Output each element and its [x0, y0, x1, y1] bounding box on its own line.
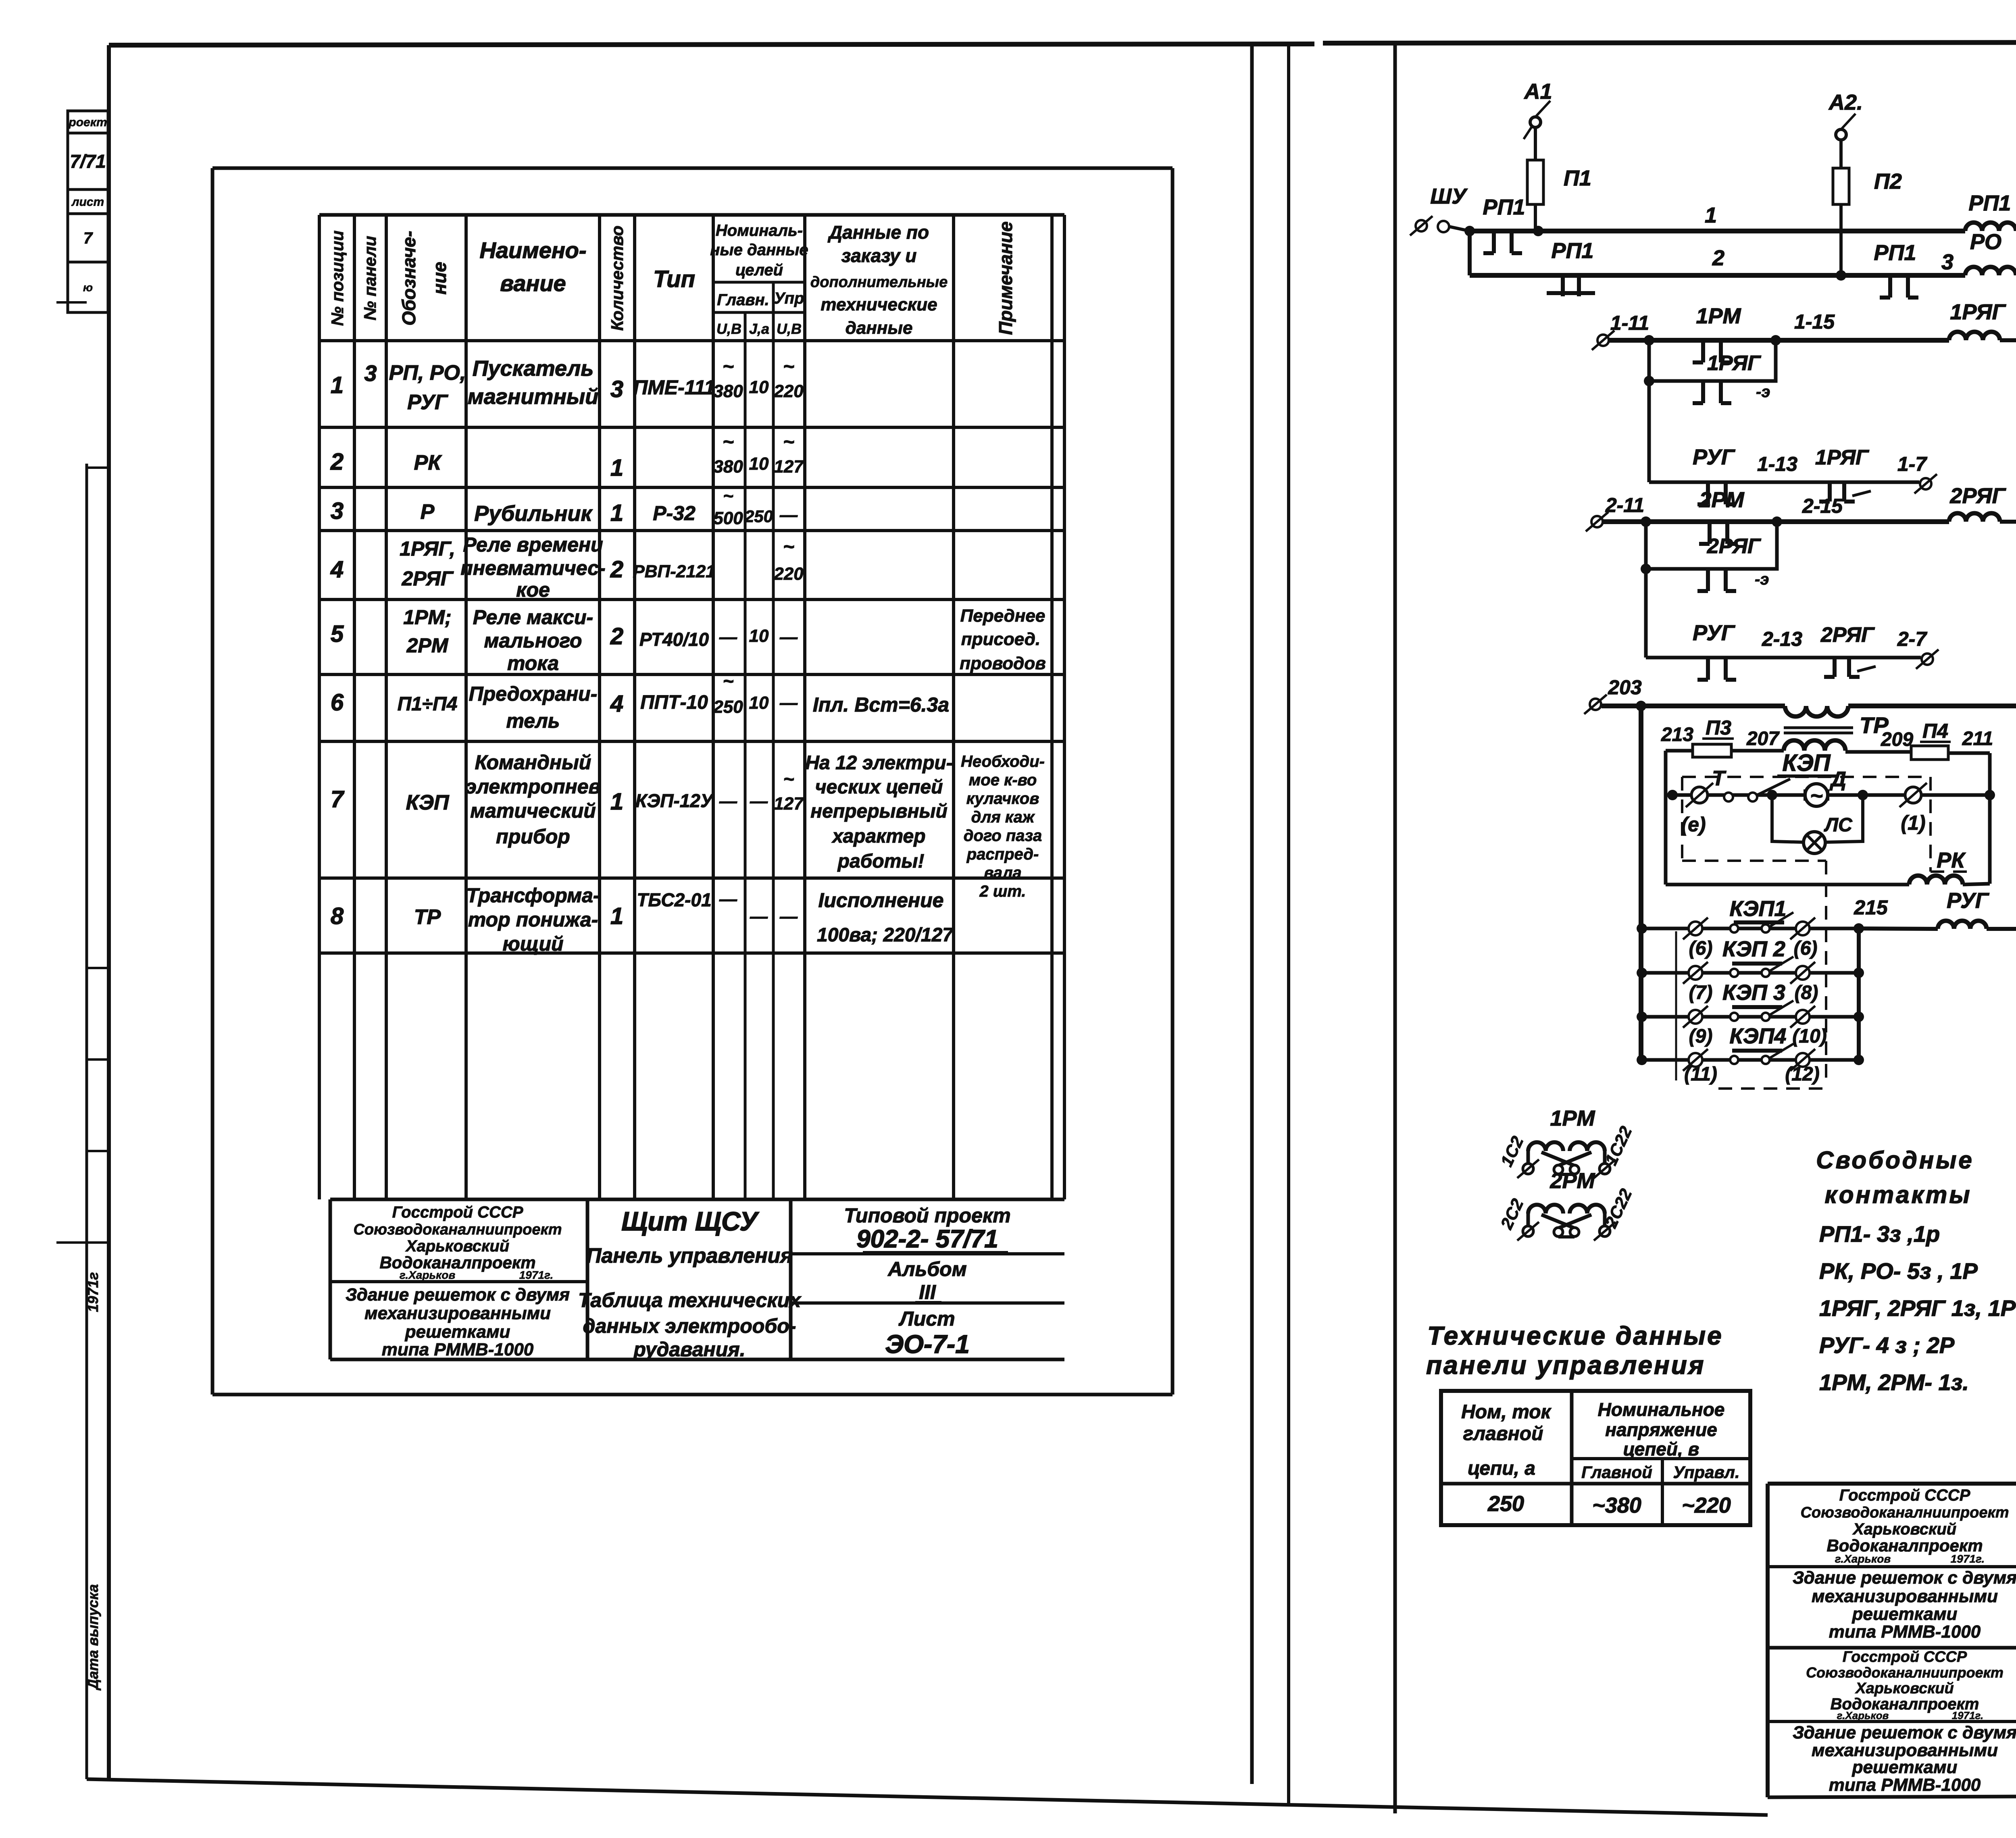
svg-text:Тип: Тип: [653, 266, 695, 292]
svg-text:типа РММВ-1000: типа РММВ-1000: [382, 1340, 534, 1359]
svg-text:РУГ: РУГ: [1693, 621, 1736, 645]
svg-text:1РМ: 1РМ: [1550, 1106, 1595, 1130]
svg-text:220: 220: [773, 564, 804, 584]
svg-text:РТ40/10: РТ40/10: [639, 629, 709, 650]
svg-text:г.Харьков: г.Харьков: [400, 1269, 456, 1281]
svg-text:Количество: Количество: [608, 226, 627, 331]
svg-text:Р-32: Р-32: [653, 502, 696, 525]
svg-text:Предохрани-: Предохрани-: [469, 683, 598, 705]
svg-text:1РЯГ: 1РЯГ: [1950, 300, 2006, 324]
svg-text:U,B: U,B: [777, 321, 802, 337]
svg-text:ние: ние: [429, 262, 450, 294]
svg-text:ческих цепей: ческих цепей: [815, 776, 943, 798]
svg-text:вала: вала: [984, 864, 1022, 882]
svg-text:3: 3: [331, 498, 344, 524]
svg-text:дополнительные: дополнительные: [810, 274, 948, 291]
svg-text:2-7: 2-7: [1897, 628, 1927, 650]
svg-text:1971г.: 1971г.: [1951, 1553, 1985, 1565]
svg-text:вание: вание: [500, 271, 566, 296]
svg-text:2РМ: 2РМ: [1549, 1169, 1595, 1193]
svg-text:220: 220: [773, 381, 804, 401]
svg-text:(11): (11): [1684, 1064, 1717, 1085]
svg-text:проводов: проводов: [960, 654, 1046, 673]
svg-text:распред-: распред-: [966, 845, 1039, 863]
svg-text:(6): (6): [1794, 938, 1818, 959]
svg-text:~: ~: [723, 431, 734, 453]
svg-text:Дата выпуска: Дата выпуска: [85, 1584, 101, 1690]
svg-text:КЭП4: КЭП4: [1730, 1024, 1787, 1048]
svg-text:РК, РО- 5з , 1Р: РК, РО- 5з , 1Р: [1819, 1258, 1978, 1284]
svg-text:КЭП: КЭП: [406, 791, 450, 814]
svg-text:Главн.: Главн.: [717, 291, 769, 309]
svg-text:КЭП-12У: КЭП-12У: [635, 790, 714, 811]
svg-text:Главной: Главной: [1581, 1463, 1652, 1482]
svg-text:Пускатель: Пускатель: [473, 356, 594, 381]
svg-text:U,B: U,B: [716, 321, 741, 337]
svg-text:Переднее: Переднее: [960, 606, 1045, 626]
svg-text:дого паза: дого паза: [964, 827, 1042, 845]
svg-text:Союзводоканалниипроект: Союзводоканалниипроект: [1800, 1504, 2009, 1521]
svg-text:Ном, ток: Ном, ток: [1461, 1401, 1552, 1423]
svg-text:типа РММВ-1000: типа РММВ-1000: [1829, 1622, 1981, 1642]
svg-text:(6): (6): [1689, 938, 1713, 959]
svg-text:Союзводоканалниипроект: Союзводоканалниипроект: [1806, 1664, 2004, 1681]
svg-text:Данные по: Данные по: [827, 222, 929, 243]
svg-text:решетками: решетками: [1852, 1757, 1958, 1777]
svg-text:—: —: [719, 627, 737, 647]
svg-text:(8): (8): [1795, 982, 1818, 1003]
svg-text:-э: -э: [1755, 570, 1769, 588]
svg-text:2РМ: 2РМ: [406, 634, 449, 657]
svg-text:кое: кое: [516, 579, 550, 601]
svg-text:2РЯГ: 2РЯГ: [1707, 535, 1761, 558]
svg-text:Номинальное: Номинальное: [1598, 1399, 1725, 1420]
svg-text:целей: целей: [735, 261, 783, 279]
svg-text:2: 2: [610, 556, 623, 583]
svg-text:данные: данные: [846, 318, 913, 338]
svg-text:(е): (е): [1681, 813, 1706, 836]
svg-text:380: 380: [713, 381, 743, 401]
svg-text:№ панели: № панели: [360, 236, 379, 321]
svg-text:Госстрой СССР: Госстрой СССР: [392, 1203, 523, 1221]
svg-text:~: ~: [783, 431, 794, 453]
svg-text:Таблица технических: Таблица технических: [578, 1289, 802, 1311]
svg-text:~: ~: [723, 670, 734, 691]
svg-text:ю: ю: [83, 281, 93, 293]
svg-text:~: ~: [783, 356, 794, 377]
svg-text:1РЯГ, 2РЯГ 1з, 1Р: 1РЯГ, 2РЯГ 1з, 1Р: [1819, 1295, 2016, 1321]
svg-text:Харьковский: Харьковский: [1855, 1680, 1954, 1697]
svg-text:заказу и: заказу и: [841, 245, 917, 266]
svg-text:1-7: 1-7: [1897, 453, 1927, 475]
svg-text:Примечание: Примечание: [995, 221, 1016, 335]
svg-text:1С2: 1С2: [1497, 1133, 1527, 1170]
svg-text:цепи, а: цепи, а: [1468, 1458, 1535, 1479]
svg-text:присоед.: присоед.: [961, 629, 1040, 649]
svg-text:2РЯГ: 2РЯГ: [1820, 623, 1875, 647]
svg-text:ЛС: ЛС: [1824, 814, 1853, 836]
svg-text:1-15: 1-15: [1794, 310, 1835, 333]
svg-text:работы!: работы!: [837, 851, 925, 872]
svg-text:380: 380: [713, 457, 743, 477]
svg-text:5: 5: [331, 621, 344, 647]
svg-text:главной: главной: [1463, 1423, 1543, 1445]
svg-text:тор понижа-: тор понижа-: [468, 908, 598, 931]
svg-text:для каж: для каж: [971, 808, 1035, 826]
svg-text:2С22: 2С22: [1601, 1186, 1635, 1231]
svg-text:100ва; 220/127: 100ва; 220/127: [817, 924, 954, 946]
svg-text:ющий: ющий: [502, 933, 563, 955]
svg-text:127: 127: [774, 457, 804, 477]
svg-text:РП1: РП1: [1552, 239, 1594, 263]
svg-text:тока: тока: [507, 652, 559, 674]
svg-text:магнитный: магнитный: [468, 385, 598, 409]
svg-text:технические: технические: [821, 295, 937, 314]
svg-text:механизированными: механизированными: [364, 1303, 551, 1323]
svg-text:2РМ: 2РМ: [1699, 488, 1744, 512]
svg-text:3: 3: [364, 360, 377, 386]
svg-text:ПМЕ-111: ПМЕ-111: [633, 376, 715, 399]
svg-text:РП1: РП1: [1874, 241, 1916, 265]
svg-text:7: 7: [331, 786, 345, 812]
svg-text:Т: Т: [1712, 767, 1727, 790]
svg-text:ные данные: ные данные: [710, 241, 808, 259]
svg-text:А1: А1: [1523, 79, 1552, 104]
svg-text:—: —: [750, 907, 768, 926]
svg-text:1РМ, 2РМ- 1з.: 1РМ, 2РМ- 1з.: [1819, 1370, 1969, 1395]
svg-text:ТБС2-01: ТБС2-01: [637, 889, 711, 910]
svg-text:КЭП 2: КЭП 2: [1722, 937, 1785, 961]
svg-text:2С2: 2С2: [1497, 1196, 1527, 1232]
svg-text:РП, РО,: РП, РО,: [389, 361, 466, 385]
svg-text:механизированными: механизированными: [1812, 1586, 1998, 1606]
svg-text:Управл.: Управл.: [1673, 1463, 1739, 1482]
svg-text:мального: мального: [484, 629, 582, 652]
svg-text:3: 3: [610, 376, 623, 402]
svg-text:—: —: [779, 627, 798, 647]
svg-text:Р: Р: [421, 500, 435, 524]
svg-text:Здание решеток с двумя: Здание решеток с двумя: [1793, 1723, 2016, 1742]
svg-text:панели управления: панели управления: [1426, 1351, 1705, 1380]
svg-text:П3: П3: [1706, 716, 1731, 739]
svg-text:РК: РК: [414, 451, 442, 475]
svg-text:1: 1: [610, 500, 623, 526]
svg-text:РВП-2121: РВП-2121: [633, 562, 715, 581]
svg-text:2-15: 2-15: [1802, 495, 1843, 517]
svg-text:Технические данные: Технические данные: [1427, 1321, 1723, 1350]
svg-text:500: 500: [713, 508, 743, 528]
svg-text:РУГ: РУГ: [1947, 889, 1990, 913]
svg-text:П1÷П4: П1÷П4: [398, 693, 458, 715]
svg-text:(9): (9): [1689, 1026, 1713, 1047]
svg-text:ШУ: ШУ: [1430, 184, 1468, 208]
svg-text:—: —: [750, 791, 768, 811]
svg-text:1РЯГ: 1РЯГ: [1707, 352, 1761, 375]
svg-text:Лист: Лист: [898, 1307, 955, 1330]
svg-text:решетками: решетками: [405, 1322, 510, 1342]
svg-text:Здание решеток с двумя: Здание решеток с двумя: [1793, 1568, 2016, 1588]
svg-text:—: —: [719, 889, 737, 909]
svg-text:Здание решеток с двумя: Здание решеток с двумя: [346, 1285, 570, 1305]
svg-text:~: ~: [783, 768, 794, 789]
svg-text:4: 4: [610, 691, 623, 717]
svg-text:Щит ЩСУ: Щит ЩСУ: [621, 1206, 759, 1236]
svg-text:10: 10: [749, 693, 769, 713]
svg-text:1-11: 1-11: [1610, 312, 1649, 334]
svg-text:1: 1: [610, 455, 623, 481]
svg-text:4: 4: [330, 556, 344, 583]
svg-text:8: 8: [331, 903, 344, 929]
svg-text:РП1: РП1: [1969, 191, 2011, 215]
svg-text:1: 1: [610, 903, 623, 929]
svg-text:10: 10: [749, 454, 769, 474]
svg-text:3: 3: [1941, 250, 1954, 274]
svg-text:1: 1: [610, 789, 623, 815]
svg-text:ТР: ТР: [414, 905, 441, 929]
svg-text:2: 2: [330, 449, 344, 475]
svg-text:250: 250: [1487, 1492, 1524, 1516]
svg-text:250: 250: [713, 697, 743, 717]
svg-text:~: ~: [723, 486, 733, 506]
svg-text:(12): (12): [1785, 1064, 1819, 1085]
svg-text:215: 215: [1854, 896, 1888, 919]
svg-text:Iпл. Вст=6.3а: Iпл. Вст=6.3а: [813, 693, 949, 716]
svg-text:пневматичес-: пневматичес-: [460, 557, 605, 579]
svg-text:6: 6: [331, 689, 344, 716]
svg-text:Реле макси-: Реле макси-: [473, 606, 593, 629]
svg-text:~220: ~220: [1682, 1493, 1731, 1517]
svg-text:Рубильник: Рубильник: [474, 502, 593, 526]
svg-text:Альбом: Альбом: [887, 1258, 966, 1280]
svg-text:контакты: контакты: [1824, 1181, 1972, 1208]
svg-text:1971г.: 1971г.: [519, 1269, 554, 1281]
svg-text:Номиналь-: Номиналь-: [716, 222, 803, 239]
svg-text:матический: матический: [470, 799, 596, 822]
svg-text:2: 2: [1712, 246, 1724, 270]
svg-text:роект: роект: [68, 116, 107, 129]
svg-text:П2: П2: [1874, 169, 1902, 194]
svg-text:~: ~: [723, 356, 734, 377]
svg-text:кулачков: кулачков: [966, 790, 1039, 808]
svg-text:2 шт.: 2 шт.: [979, 883, 1026, 900]
svg-text:П1: П1: [1564, 166, 1591, 190]
svg-text:характер: характер: [831, 826, 925, 847]
svg-text:127: 127: [774, 794, 804, 814]
svg-text:ППТ-10: ППТ-10: [640, 692, 708, 713]
svg-text:ЭО-7-1: ЭО-7-1: [885, 1330, 970, 1359]
svg-text:III: III: [919, 1281, 936, 1303]
svg-text:1РМ;: 1РМ;: [403, 606, 451, 629]
svg-text:2-13: 2-13: [1762, 628, 1802, 650]
svg-text:250: 250: [744, 507, 773, 526]
svg-text:1971г: 1971г: [85, 1272, 101, 1312]
svg-text:Панель управления: Панель управления: [586, 1244, 793, 1268]
svg-text:J,a: J,a: [749, 321, 769, 337]
svg-text:Харьковский: Харьковский: [405, 1237, 509, 1255]
svg-text:А2.: А2.: [1828, 90, 1863, 114]
svg-text:1РМ: 1РМ: [1696, 304, 1741, 328]
svg-text:1РЯГ,: 1РЯГ,: [400, 537, 455, 560]
svg-text:2РЯГ: 2РЯГ: [401, 567, 454, 590]
svg-text:цепей, в: цепей, в: [1623, 1438, 1699, 1459]
svg-text:10: 10: [749, 626, 769, 646]
svg-text:Необходи-: Необходи-: [961, 753, 1045, 770]
svg-text:~: ~: [1810, 784, 1823, 808]
svg-text:Водоканалпроект: Водоканалпроект: [1826, 1536, 1983, 1555]
svg-text:лист: лист: [71, 196, 104, 209]
svg-text:902-2- 57/71: 902-2- 57/71: [856, 1225, 998, 1253]
svg-text:РУГ- 4 з ; 2Р: РУГ- 4 з ; 2Р: [1819, 1332, 1955, 1358]
svg-text:Iисполнение: Iисполнение: [818, 889, 944, 912]
svg-text:Наимено-: Наимено-: [479, 237, 586, 263]
svg-text:электропнев: электропнев: [465, 775, 600, 798]
svg-text:~380: ~380: [1592, 1493, 1641, 1517]
svg-text:1-13: 1-13: [1757, 453, 1797, 475]
svg-text:7: 7: [83, 229, 93, 247]
svg-text:1971г.: 1971г.: [1952, 1709, 1984, 1721]
svg-text:КЭП 3: КЭП 3: [1722, 980, 1785, 1005]
svg-text:непрерывный: непрерывный: [810, 801, 948, 822]
svg-text:Командный: Командный: [475, 751, 591, 774]
svg-text:203: 203: [1608, 676, 1642, 699]
svg-text:рудавания.: рудавания.: [633, 1338, 745, 1361]
svg-text:На 12 электри-: На 12 электри-: [805, 752, 952, 774]
svg-text:207: 207: [1746, 728, 1780, 749]
svg-text:1: 1: [1705, 203, 1717, 227]
svg-text:10: 10: [749, 377, 769, 397]
svg-text:г.Харьков: г.Харьков: [1837, 1709, 1889, 1721]
svg-text:Союзводоканалниипроект: Союзводоканалниипроект: [353, 1221, 562, 1238]
svg-text:РУГ: РУГ: [1693, 445, 1736, 469]
svg-text:г.Харьков: г.Харьков: [1835, 1553, 1891, 1565]
svg-text:(10): (10): [1792, 1026, 1826, 1047]
svg-text:7/71: 7/71: [70, 151, 106, 172]
svg-text:Госстрой СССР: Госстрой СССР: [1843, 1649, 1967, 1665]
svg-text:Обозначе-: Обозначе-: [398, 231, 419, 325]
svg-text:РК: РК: [1937, 848, 1966, 872]
svg-text:РО: РО: [1970, 230, 2001, 254]
svg-text:(1): (1): [1901, 812, 1925, 834]
svg-text:КЭП: КЭП: [1782, 750, 1831, 776]
svg-text:-э: -э: [1756, 383, 1770, 401]
svg-text:2РЯГ: 2РЯГ: [1949, 484, 2006, 508]
svg-text:1С22: 1С22: [1601, 1123, 1635, 1168]
svg-text:РП1: РП1: [1483, 195, 1525, 219]
svg-text:1РЯГ: 1РЯГ: [1815, 446, 1869, 469]
svg-text:напряжение: напряжение: [1605, 1419, 1717, 1440]
svg-text:решетками: решетками: [1852, 1604, 1958, 1624]
svg-text:Госстрой СССР: Госстрой СССР: [1839, 1486, 1970, 1504]
svg-text:213: 213: [1661, 724, 1693, 745]
svg-text:(7): (7): [1689, 982, 1713, 1003]
svg-text:типа РММВ-1000: типа РММВ-1000: [1829, 1775, 1981, 1795]
svg-text:Типовой проект: Типовой проект: [844, 1204, 1010, 1227]
svg-text:1: 1: [331, 372, 344, 398]
svg-text:~: ~: [783, 536, 794, 558]
svg-text:—: —: [779, 505, 798, 525]
svg-text:РП1- 3з ,1р: РП1- 3з ,1р: [1819, 1221, 1940, 1247]
svg-text:тель: тель: [506, 710, 560, 732]
svg-text:Харьковский: Харьковский: [1852, 1520, 1956, 1538]
svg-text:211: 211: [1962, 728, 1993, 749]
svg-text:Д: Д: [1829, 768, 1846, 791]
svg-text:КЭП1: КЭП1: [1730, 897, 1787, 921]
svg-text:РУГ: РУГ: [407, 391, 448, 414]
svg-text:прибор: прибор: [496, 825, 570, 848]
svg-text:№ позиции: № позиции: [328, 231, 347, 326]
svg-text:—: —: [779, 693, 798, 713]
svg-text:Трансформа-: Трансформа-: [466, 884, 600, 907]
svg-text:—: —: [779, 907, 798, 926]
svg-text:2-11: 2-11: [1605, 494, 1644, 516]
svg-text:П4: П4: [1922, 720, 1948, 742]
svg-text:Свободные: Свободные: [1816, 1147, 1974, 1174]
svg-text:Упр: Упр: [774, 289, 804, 307]
svg-text:данных электрообо-: данных электрообо-: [583, 1315, 796, 1337]
svg-text:Реле времени: Реле времени: [463, 533, 603, 556]
svg-text:мое к-во: мое к-во: [969, 771, 1037, 789]
svg-text:—: —: [719, 791, 737, 811]
svg-text:209: 209: [1881, 729, 1913, 750]
svg-text:2: 2: [610, 623, 623, 649]
